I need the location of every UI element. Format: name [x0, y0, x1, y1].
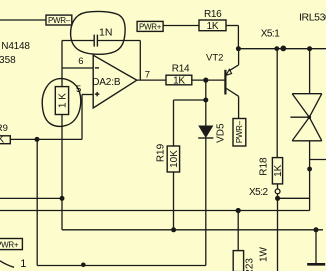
svg-text:1W: 1W: [259, 246, 270, 262]
svg-text:N4148: N4148: [1, 41, 30, 52]
svg-text:PWR+: PWR+: [0, 240, 19, 249]
svg-text:R23: R23: [245, 258, 256, 271]
svg-text:1K: 1K: [0, 135, 4, 146]
wire: [278, 197, 310, 199]
node junction: [314, 227, 319, 232]
op-amp DA2:B: [92, 55, 137, 108]
node junction: [274, 46, 279, 51]
annotation curve bottom left: [0, 261, 14, 268]
wire: [62, 40, 94, 42]
svg-text:X5:1: X5:1: [261, 29, 281, 40]
wire net B: [0, 210, 310, 212]
wire: [61, 41, 63, 87]
wire: [36, 139, 38, 265]
svg-text:VT2: VT2: [206, 53, 223, 64]
wire: [163, 25, 199, 27]
power flag PWR+ top: [137, 21, 163, 31]
wire: [315, 230, 317, 263]
wire: [277, 198, 279, 271]
wire: [97, 40, 140, 42]
wire net A left: [0, 197, 62, 199]
svg-text:IRL530: IRL530: [299, 11, 326, 23]
resistor 1K at inverting input: [55, 87, 68, 115]
svg-text:PWR–: PWR–: [48, 16, 71, 25]
power flag PWR- top left: [46, 15, 72, 25]
wire: [0, 19, 46, 21]
svg-text:10K: 10K: [169, 150, 180, 168]
wire: [238, 49, 240, 65]
wire X5:1 rail: [238, 48, 326, 50]
capacitor C 1N: [94, 27, 112, 47]
svg-text:1 K: 1 K: [57, 93, 68, 108]
wire: [277, 184, 279, 198]
wire: [61, 115, 63, 230]
svg-text:PWR–: PWR–: [235, 120, 244, 143]
node junction: [171, 227, 176, 232]
svg-text:R9: R9: [0, 123, 8, 134]
svg-text:7: 7: [145, 70, 150, 81]
node junction: [275, 196, 280, 201]
resistor R23 1W: [233, 246, 269, 271]
annotation blob around 1K: [42, 79, 81, 127]
resistor R18: [258, 157, 284, 184]
svg-text:1K: 1K: [273, 164, 284, 177]
node junction: [35, 137, 40, 142]
resistor R9 partial at left: [0, 123, 10, 146]
node junction: [236, 46, 241, 51]
svg-text:6: 6: [78, 56, 83, 67]
wire pin5: [82, 94, 93, 96]
svg-text:VD5: VD5: [215, 123, 226, 143]
connector pin X5:1: [280, 46, 286, 52]
svg-text:1K: 1K: [207, 21, 219, 32]
svg-text:5: 5: [76, 84, 81, 95]
diode VD5: [198, 100, 226, 143]
wire: [237, 26, 239, 49]
svg-text:M358: M358: [0, 55, 16, 66]
svg-text:X5:2: X5:2: [249, 187, 269, 198]
wire net C: [62, 229, 323, 231]
wire: [81, 95, 83, 140]
svg-text:R19: R19: [155, 143, 166, 162]
svg-text:R16: R16: [204, 9, 222, 20]
svg-text:1: 1: [20, 258, 26, 270]
capacitor plate bottom right: [307, 263, 325, 266]
wire: [310, 159, 326, 161]
wire: [139, 41, 141, 81]
wire: [237, 211, 239, 251]
wire: [276, 49, 278, 158]
node junction: [60, 196, 65, 201]
svg-text:PWR+: PWR+: [139, 23, 162, 32]
resistor R19 10K: [155, 143, 180, 172]
resistor R16: [199, 9, 226, 32]
svg-text:DA2:B: DA2:B: [92, 77, 121, 88]
wire pin6: [62, 67, 93, 69]
wire output pin7: [137, 79, 166, 81]
wire: [309, 141, 311, 211]
TVS suppressor VD bidirectional: [290, 94, 321, 141]
svg-text:1N: 1N: [99, 27, 112, 39]
wire net D bottom: [37, 265, 206, 267]
power flag PWR- at emitter: [233, 119, 246, 147]
connector pin X5:2: [275, 189, 280, 194]
annotation blob around capacitor: [71, 11, 126, 54]
transistor VT2: [206, 53, 239, 97]
wire: [10, 138, 82, 140]
node junction: [81, 263, 86, 268]
wire: [192, 79, 225, 81]
wire: [309, 49, 311, 94]
resistor R14: [166, 63, 192, 86]
wire: [205, 138, 207, 266]
power flag PWR+ bottom left: [0, 239, 22, 250]
wire: [173, 172, 175, 230]
wire: [205, 80, 207, 100]
wire: [174, 99, 206, 101]
svg-text:R14: R14: [172, 63, 190, 74]
node junction: [307, 167, 312, 172]
wire: [238, 96, 240, 118]
node junction: [307, 46, 312, 51]
node junction: [236, 208, 241, 213]
svg-text:R18: R18: [258, 157, 269, 176]
wire: [226, 25, 238, 27]
node junction: [203, 78, 208, 83]
node junction: [203, 98, 208, 103]
wire: [173, 100, 175, 146]
svg-text:1K: 1K: [173, 75, 185, 86]
